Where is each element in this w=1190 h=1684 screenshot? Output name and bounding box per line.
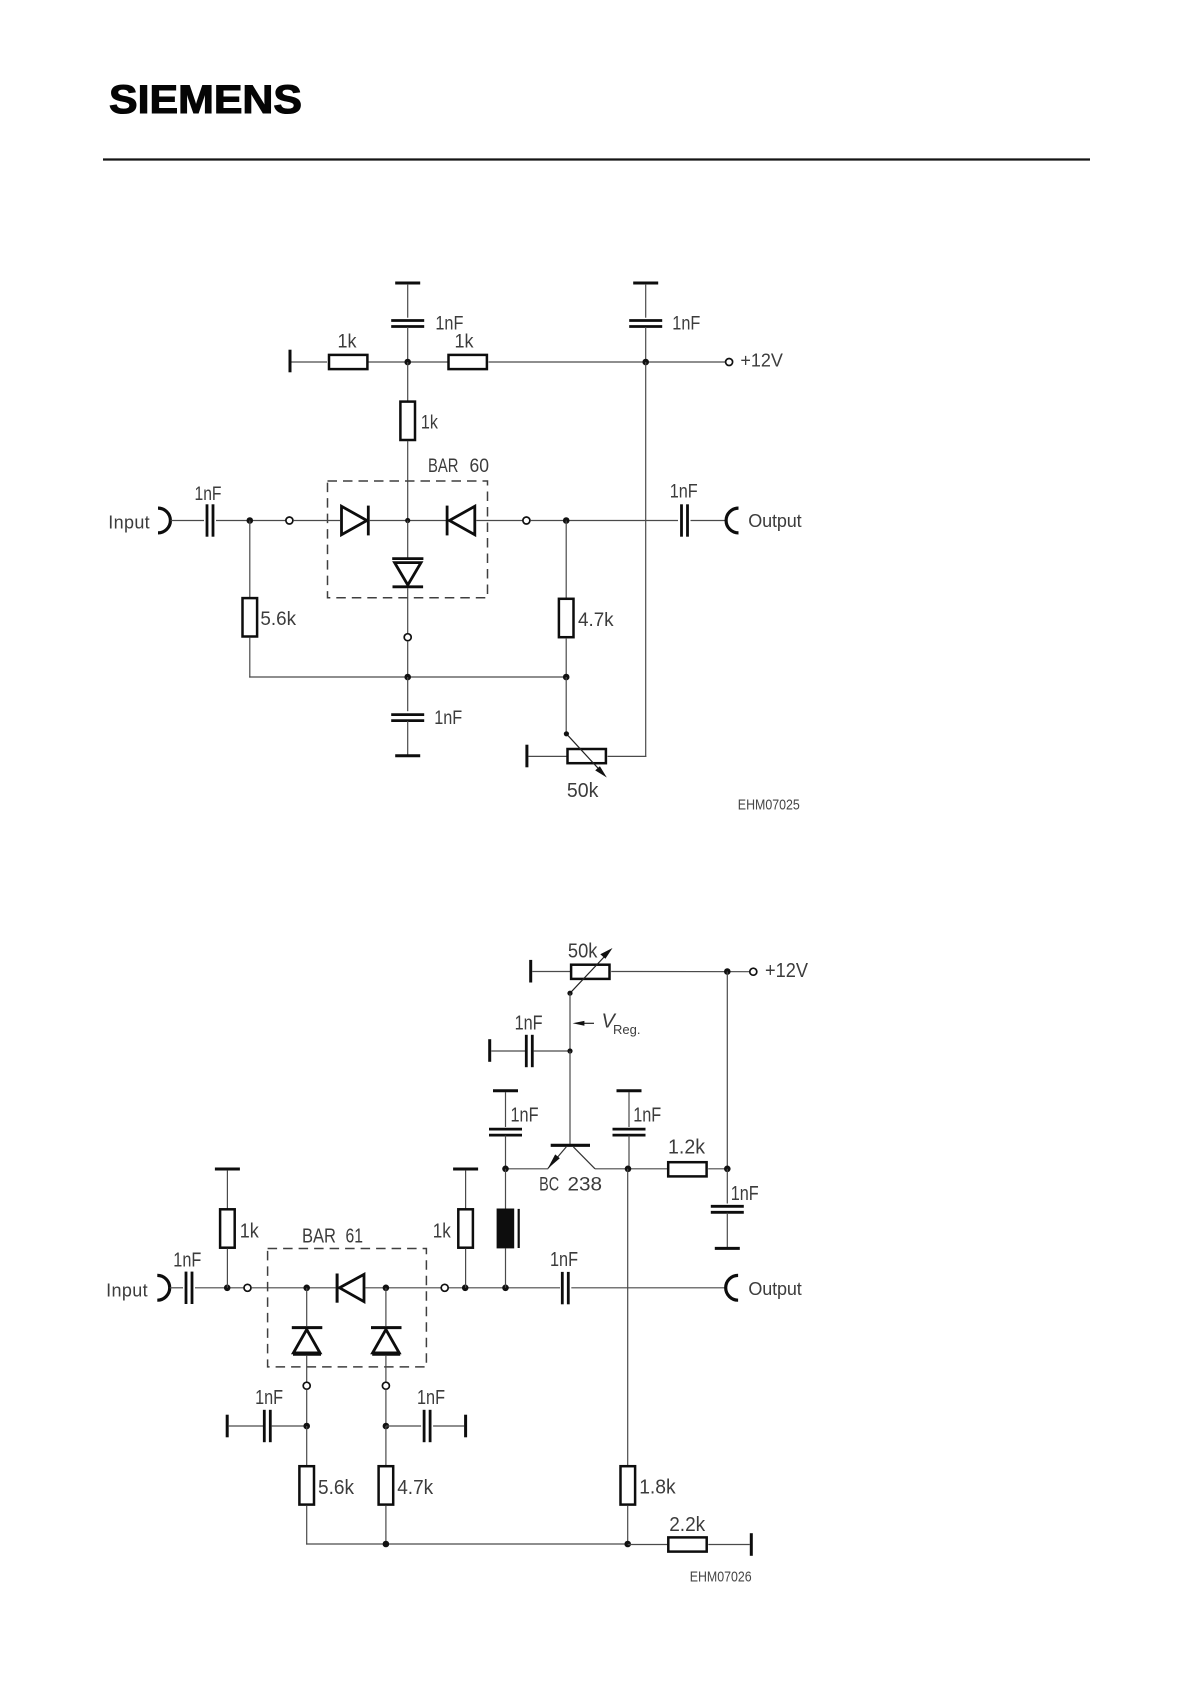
- wire: C7 to emitter node: [505, 1136, 507, 1169]
- diode D4 (cathode left): [337, 1274, 364, 1303]
- capacitor C2 1nF: [629, 321, 662, 327]
- svg-text:+12V: +12V: [765, 960, 809, 982]
- node junction J17: [383, 1285, 390, 1292]
- wire: R2 to +12V terminal: [489, 361, 726, 363]
- wire: R11 to stub: [708, 1544, 750, 1546]
- wire: ground to C7: [505, 1092, 507, 1127]
- capacitor C7 1nF: [489, 1129, 522, 1135]
- wire: D3 through box to pin circle: [407, 588, 409, 633]
- pin circle right of BAR60: [523, 517, 530, 524]
- terminal stub right of R11: [750, 1533, 752, 1556]
- dashed package outline BAR 60: [328, 481, 488, 598]
- wire: circle to output cap: [530, 520, 678, 522]
- svg-text:EHM07026: EHM07026: [690, 1569, 752, 1586]
- ground above C7: [493, 1090, 518, 1092]
- wire: C6 to J11: [533, 1050, 570, 1052]
- svg-text:EHM07025: EHM07025: [738, 797, 800, 814]
- resistor R5 4.7k: [559, 599, 574, 637]
- svg-text:1nF: 1nF: [195, 484, 222, 505]
- ground above R7: [215, 1168, 240, 1170]
- node junction J22: [502, 1285, 509, 1292]
- wire: +12V top rail: [290, 361, 327, 363]
- wire: J19 down to R9: [385, 1426, 387, 1465]
- wire: J14 down to C9: [726, 1169, 728, 1204]
- wire: bottom return: [249, 676, 566, 678]
- resistor R11 2.2k: [668, 1537, 706, 1551]
- terminal stub left of R1: [289, 350, 291, 373]
- wire: J19 to C12: [386, 1425, 421, 1427]
- wire: input arc to C3: [171, 520, 205, 522]
- svg-text:Reg.: Reg.: [613, 1022, 640, 1037]
- wire: J4 down to D3: [407, 521, 409, 560]
- capacitor C3 1nF series: [207, 504, 213, 536]
- potentiometer 50k body: [568, 749, 606, 763]
- wiper node dot: [564, 731, 569, 736]
- potentiometer wiper arrow: [566, 734, 606, 778]
- wire: collector lead to J13: [595, 1168, 668, 1170]
- capacitor C6 1nF series: [526, 1035, 532, 1067]
- wire: after-box row: [445, 1287, 560, 1289]
- capacitor C1 1nF: [391, 321, 424, 327]
- wire: C2 to rail: [645, 327, 647, 362]
- wire: C1 to rail: [407, 327, 409, 362]
- wire: C4 to output arc: [691, 520, 726, 522]
- transistor Q1 collector lead: [573, 1147, 595, 1169]
- resistor R9 4.7k: [379, 1466, 394, 1504]
- node junction J18: [303, 1423, 310, 1430]
- wire: J5 down to R5: [565, 521, 567, 599]
- node junction J14: [724, 1166, 731, 1173]
- wire: ground to R12: [465, 1170, 467, 1208]
- input terminal arc: [158, 508, 170, 533]
- wire: C12 to stub: [433, 1425, 464, 1427]
- svg-text:SIEMENS: SIEMENS: [109, 78, 302, 122]
- wire: between R1 and node: [368, 361, 447, 363]
- svg-text:1.8k: 1.8k: [639, 1477, 676, 1499]
- svg-text:4.7k: 4.7k: [578, 610, 614, 631]
- svg-text:1nF: 1nF: [670, 482, 698, 503]
- svg-text:2.2k: 2.2k: [669, 1514, 706, 1536]
- wire: choke to J22: [505, 1248, 507, 1287]
- node junction J16: [303, 1285, 310, 1292]
- svg-text:1k: 1k: [433, 1221, 452, 1243]
- svg-text:1nF: 1nF: [731, 1183, 759, 1205]
- terminal stub left of C11: [226, 1415, 228, 1438]
- wire: pot to +12V node: [611, 971, 749, 973]
- node junction J5 output: [563, 517, 570, 524]
- svg-text:5.6k: 5.6k: [260, 609, 296, 630]
- wire: R7 to J15: [226, 1249, 228, 1288]
- capacitor C12 1nF series: [424, 1410, 430, 1442]
- wire: circle to J19: [385, 1390, 387, 1426]
- wire: ground to R7: [226, 1170, 228, 1208]
- wire: ground to C1: [407, 284, 409, 318]
- ground below C9: [715, 1247, 740, 1249]
- output terminal arc: [726, 508, 738, 533]
- capacitor C4 1nF series: [682, 504, 688, 536]
- dashed package outline BAR 61: [268, 1249, 427, 1367]
- +12V terminal circle: [750, 968, 757, 975]
- resistor R1 1k: [329, 355, 367, 369]
- wire: C5 to ground: [407, 721, 409, 755]
- wire: J1 down to R3: [407, 362, 409, 401]
- wire: D1 to center node: [370, 520, 446, 522]
- wire: C3 to open circle: [216, 520, 286, 522]
- svg-text:+12V: +12V: [740, 350, 783, 370]
- svg-text:1nF: 1nF: [633, 1104, 661, 1126]
- svg-text:5.6k: 5.6k: [318, 1477, 355, 1499]
- svg-text:1k: 1k: [421, 413, 438, 434]
- wire: stub to C6: [491, 1050, 525, 1052]
- svg-text:1.2k: 1.2k: [668, 1136, 706, 1158]
- node junction J9: [724, 968, 731, 975]
- node junction J21: [624, 1541, 631, 1548]
- svg-text:60: 60: [470, 456, 490, 477]
- svg-text:BAR: BAR: [428, 456, 459, 477]
- +12V terminal circle: [726, 359, 733, 366]
- wire: R12 to J23: [465, 1249, 467, 1288]
- resistor R3 1k vertical: [400, 402, 415, 440]
- node junction J6: [404, 674, 411, 681]
- wiper node dot: [567, 991, 572, 996]
- ground above C8: [617, 1090, 642, 1092]
- svg-text:1nF: 1nF: [515, 1013, 543, 1035]
- svg-text:1k: 1k: [455, 332, 474, 353]
- wire: R10 to J21: [627, 1505, 629, 1544]
- wire: circle into package: [251, 1287, 335, 1289]
- ground above R12: [453, 1168, 478, 1170]
- wire: J3 down to R4: [249, 521, 251, 599]
- svg-text:BAR: BAR: [302, 1226, 336, 1248]
- svg-text:50k: 50k: [568, 940, 598, 962]
- transistor Q1 emitter lead with arrow: [548, 1147, 567, 1169]
- ground top-right: [633, 282, 658, 284]
- svg-text:1nF: 1nF: [672, 314, 700, 335]
- svg-text:BC: BC: [539, 1175, 559, 1196]
- wire: R9 to bottom wire: [385, 1505, 387, 1544]
- wire: J17 down to D6: [385, 1288, 387, 1326]
- pin circle left of BAR61: [244, 1284, 251, 1291]
- wire: D6 to pin circle: [385, 1356, 387, 1382]
- wire: bottom return: [306, 1543, 628, 1545]
- wire: ground to C8: [628, 1092, 630, 1127]
- resistor R12 1k: [458, 1209, 473, 1247]
- transistor Q1 BC238 base bar: [551, 1144, 590, 1147]
- wire: D2 to pin circle: [476, 520, 522, 522]
- terminal stub right of C12: [465, 1415, 467, 1438]
- wire: C9 to ground: [726, 1213, 728, 1247]
- wire: D4 to J17: [365, 1287, 440, 1289]
- svg-text:1k: 1k: [338, 332, 357, 353]
- wire: right rail J2 down to pot: [645, 362, 647, 757]
- wire: circle into package: [293, 520, 340, 522]
- diode D2 (cathode left): [447, 506, 475, 536]
- input terminal arc: [157, 1275, 169, 1300]
- pin circle right of BAR61: [441, 1284, 448, 1291]
- capacitor C8 1nF: [613, 1129, 646, 1135]
- node junction J13 collector: [625, 1166, 632, 1173]
- capacitor C9 1nF: [711, 1206, 744, 1212]
- wire: R6 to right rail: [708, 1168, 727, 1170]
- capacitor C5 1nF: [391, 715, 424, 721]
- svg-text:1nF: 1nF: [255, 1387, 283, 1409]
- ground bottom: [395, 755, 420, 757]
- inductor L1 (solid core choke): [497, 1209, 519, 1249]
- resistor R6 1.2k: [668, 1162, 706, 1176]
- svg-text:1nF: 1nF: [550, 1249, 578, 1271]
- diode D6 (pointing up): [371, 1328, 402, 1355]
- wire: stub to pot: [528, 755, 567, 757]
- wire: C11 to J18: [271, 1425, 306, 1427]
- collector rail down to R10: [627, 1169, 629, 1466]
- diode D3 (pointing down): [392, 559, 423, 587]
- svg-text:Output: Output: [748, 511, 801, 531]
- wire: R8 to bottom wire: [306, 1505, 308, 1544]
- wire: R3 to diode node: [407, 441, 409, 521]
- wire: wiper down to J11: [569, 993, 571, 1051]
- terminal stub left of pot: [526, 745, 528, 768]
- svg-text:1nF: 1nF: [434, 708, 462, 729]
- potentiometer wiper arrow (up-right): [570, 948, 613, 993]
- svg-text:1k: 1k: [240, 1221, 260, 1243]
- svg-text:1nF: 1nF: [173, 1250, 201, 1272]
- svg-text:Input: Input: [106, 1281, 148, 1301]
- wire: pot to rail corner: [608, 755, 647, 757]
- wire: C13 to output arc: [571, 1287, 724, 1289]
- wire: R5 to bottom wire: [565, 638, 567, 677]
- svg-text:4.7k: 4.7k: [397, 1477, 434, 1499]
- node junction J15: [224, 1285, 231, 1292]
- header rule: [103, 158, 1090, 160]
- capacitor C11 1nF series: [264, 1410, 270, 1442]
- right rail +12V down: [726, 972, 728, 1169]
- wire: R4 to bottom wire: [249, 637, 251, 677]
- svg-text:50k: 50k: [567, 780, 599, 802]
- wire: C10 to J15: [195, 1287, 244, 1289]
- potentiometer 50k body: [571, 965, 609, 979]
- resistor R4 5.6k: [243, 598, 258, 636]
- wire: ground to C2: [645, 284, 647, 318]
- pin circle below D6: [382, 1382, 389, 1389]
- capacitor C13 1nF series output: [562, 1272, 568, 1304]
- svg-text:Output: Output: [748, 1279, 801, 1299]
- resistor R10 1.8k: [621, 1466, 636, 1504]
- capacitor C10 1nF series: [186, 1272, 192, 1304]
- node junction J2 on rail: [642, 359, 649, 366]
- resistor R2 1k: [449, 355, 487, 369]
- ground top-left: [395, 282, 420, 284]
- node junction J19: [383, 1423, 390, 1430]
- diode D5 (pointing up): [292, 1328, 323, 1355]
- node junction J11: [567, 1048, 572, 1053]
- node junction J4 center: [405, 518, 410, 523]
- node junction J12 emitter: [502, 1166, 509, 1173]
- pin circle below D5: [303, 1382, 310, 1389]
- wire: J11 down to base: [569, 1051, 571, 1144]
- node junction J1: [404, 359, 411, 366]
- wire: circle to bottom node: [407, 641, 409, 677]
- pin circle below BAR60: [404, 634, 411, 641]
- output terminal arc: [726, 1275, 738, 1300]
- svg-text:Input: Input: [108, 513, 150, 533]
- svg-text:1nF: 1nF: [417, 1387, 445, 1409]
- node junction J7: [563, 674, 570, 681]
- pin circle left of BAR60: [286, 517, 293, 524]
- terminal stub left of pot 50k: [530, 960, 532, 983]
- wire: emitter node down to choke: [505, 1169, 507, 1209]
- wire: J6 down to C5: [407, 677, 409, 711]
- node junction J20: [383, 1541, 390, 1548]
- svg-text:238: 238: [568, 1175, 603, 1196]
- wire: J18 down to R8: [306, 1426, 308, 1465]
- VReg pointer arrow: [573, 1021, 594, 1026]
- resistor R8 5.6k: [299, 1466, 314, 1504]
- wire: stub to pot: [532, 971, 570, 973]
- wire: D5 to pin circle: [306, 1356, 308, 1382]
- wire: stub to C11: [229, 1425, 264, 1427]
- wire: input arc to C10: [170, 1287, 183, 1289]
- svg-text:61: 61: [346, 1226, 364, 1248]
- resistor R7 1k: [220, 1209, 235, 1247]
- wire: C8 to collector node: [628, 1136, 630, 1169]
- svg-text:1nF: 1nF: [511, 1104, 539, 1126]
- node junction J3 input: [247, 517, 254, 524]
- wire: J21 to R11: [628, 1544, 668, 1546]
- wire: emitter node to emitter lead: [506, 1168, 549, 1170]
- wire: J16 down to D5: [306, 1288, 308, 1326]
- wire: J7 down to wiper: [565, 677, 567, 734]
- diode D1 (anode left): [342, 506, 369, 536]
- terminal stub left of C6: [489, 1039, 491, 1062]
- node junction J23: [462, 1285, 469, 1292]
- wire: circle to J18: [306, 1390, 308, 1426]
